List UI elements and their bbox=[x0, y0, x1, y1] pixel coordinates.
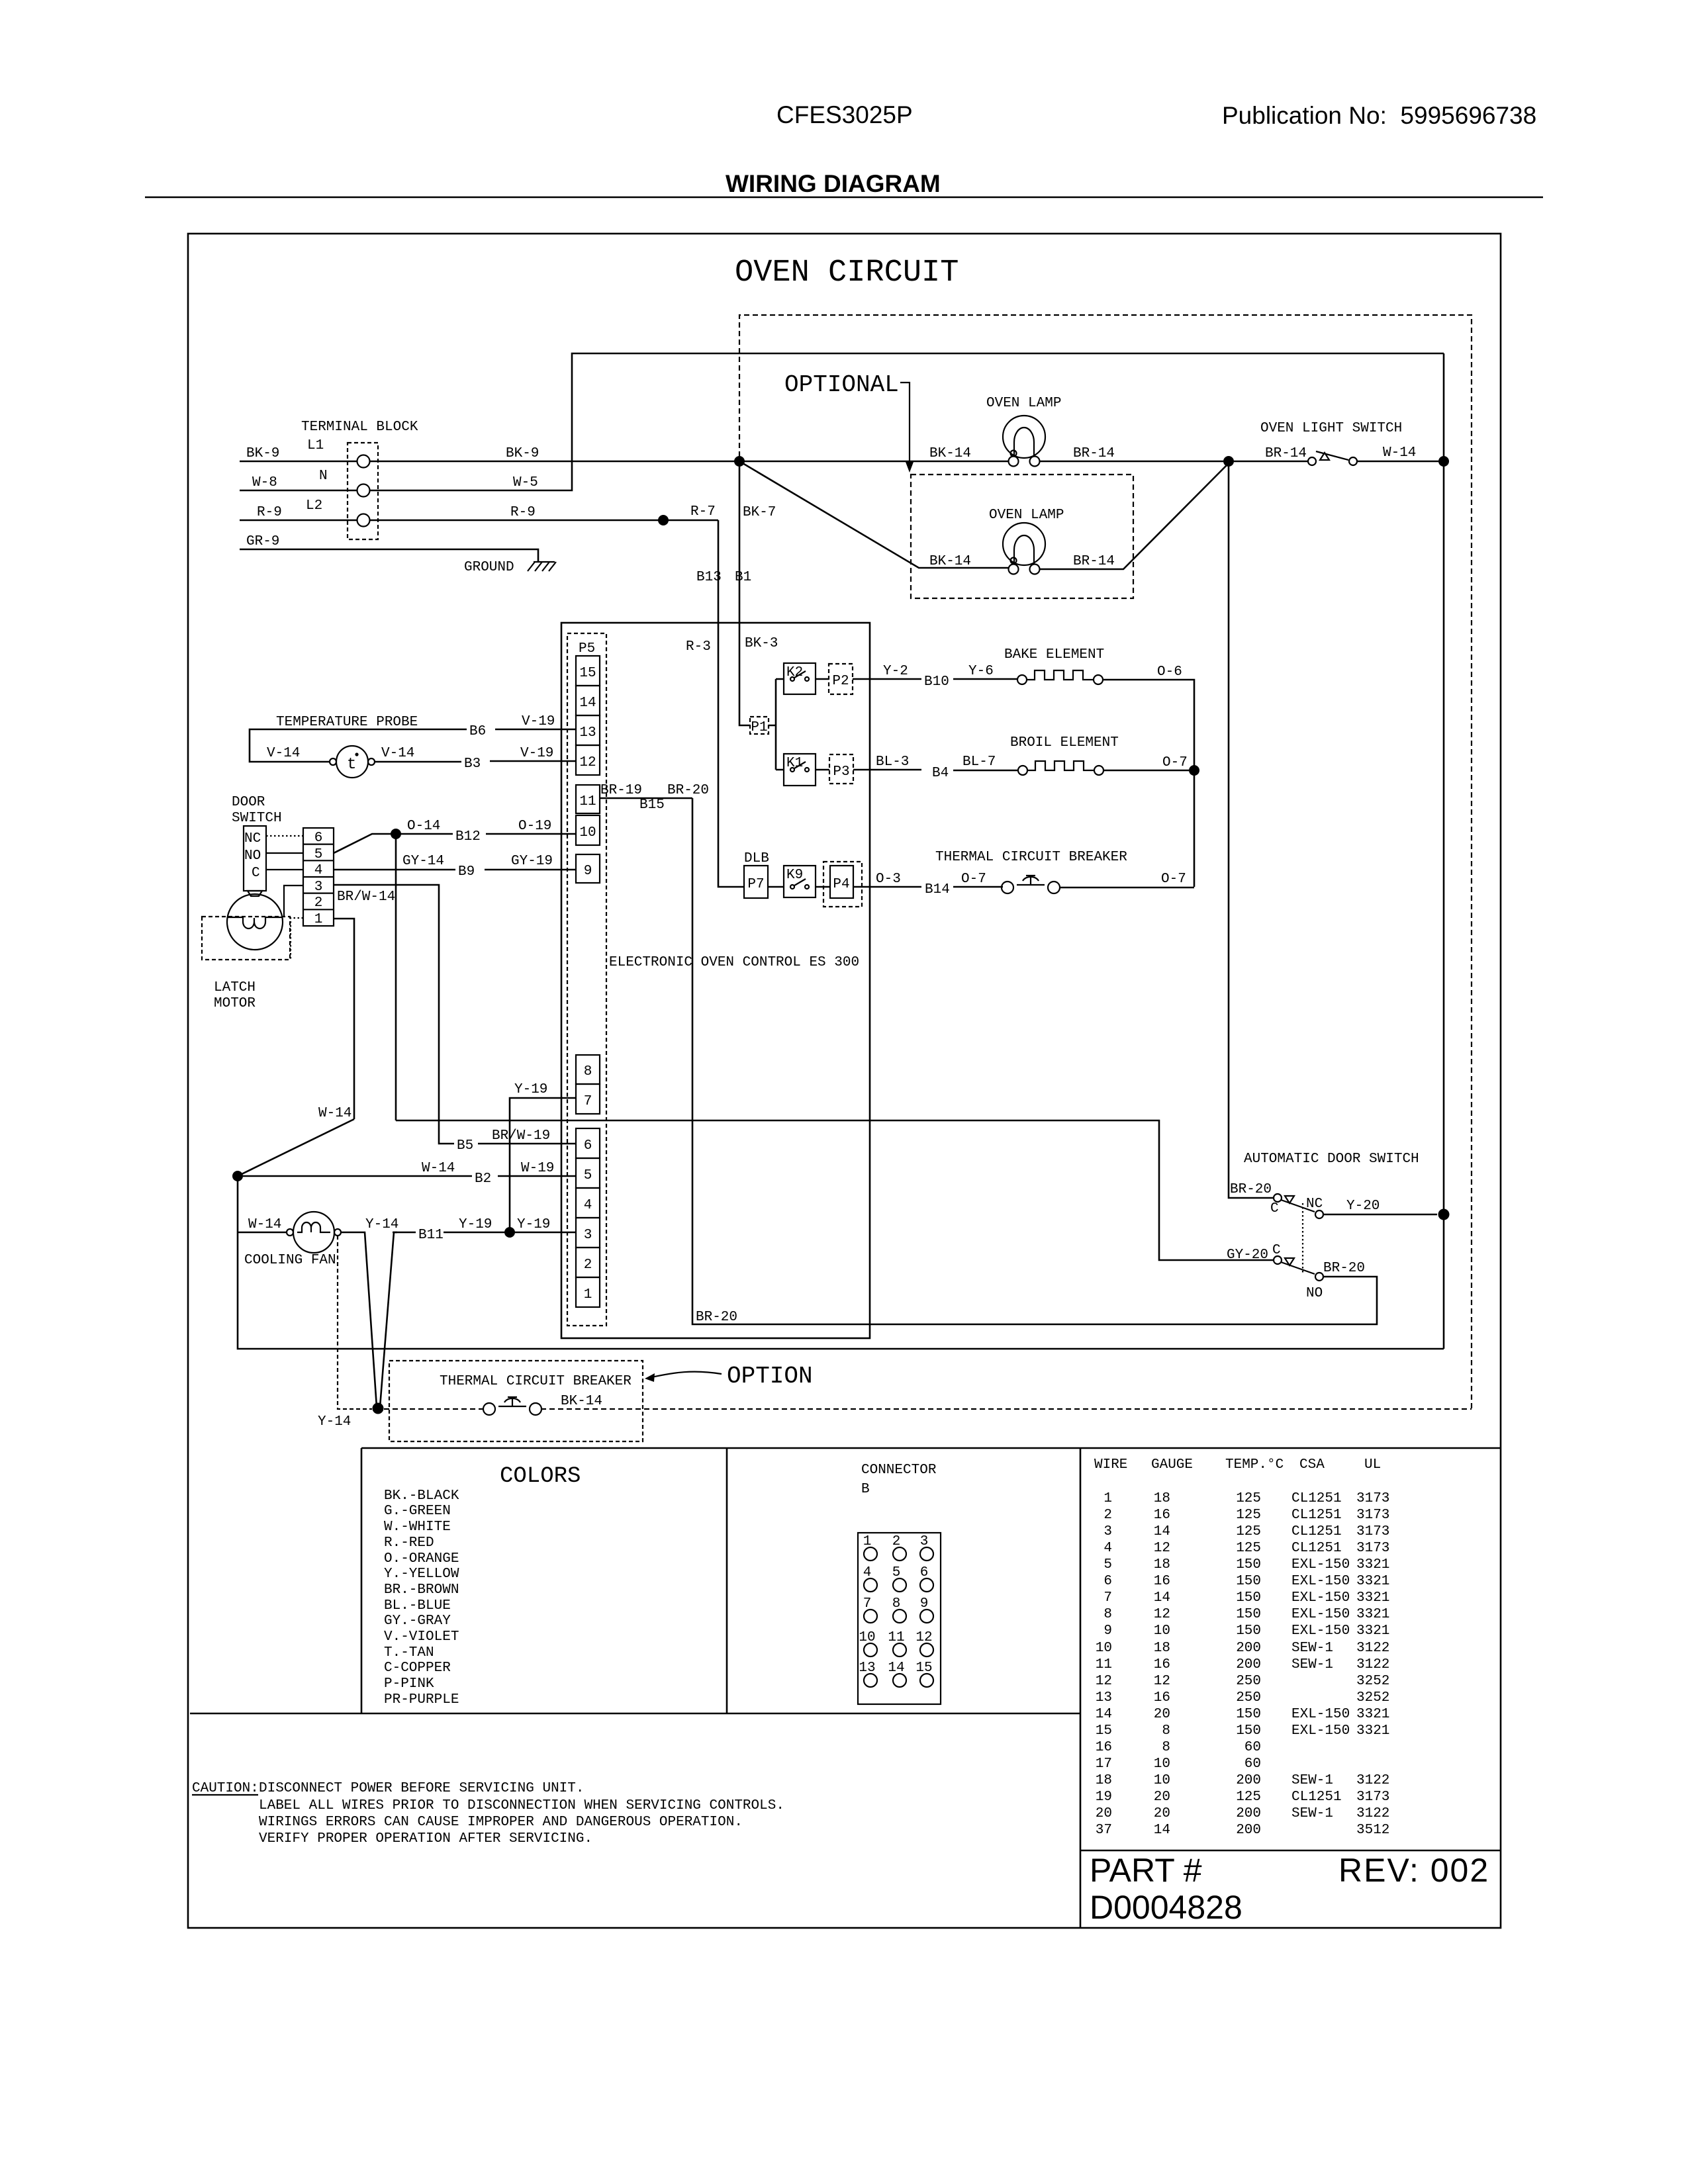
svg-text:150: 150 bbox=[1236, 1623, 1261, 1639]
svg-text:14: 14 bbox=[1154, 1590, 1170, 1606]
relay K9 blade bbox=[794, 879, 806, 886]
svg-text:Y-2: Y-2 bbox=[883, 664, 908, 679]
svg-text:GY-20: GY-20 bbox=[1227, 1248, 1268, 1263]
svg-text:MOTOR: MOTOR bbox=[214, 996, 256, 1011]
svg-text:B15: B15 bbox=[639, 797, 665, 813]
thermal circuit breaker dome bbox=[1023, 877, 1039, 881]
option breaker stem and cap bbox=[508, 1397, 517, 1406]
svg-text:200: 200 bbox=[1236, 1773, 1261, 1788]
svg-text:W-14: W-14 bbox=[1383, 445, 1416, 461]
svg-text:150: 150 bbox=[1236, 1574, 1261, 1589]
svg-text:5: 5 bbox=[584, 1168, 592, 1183]
wire P7 to K9 bbox=[768, 886, 784, 888]
wire cell 1 left down bbox=[291, 918, 303, 959]
terminal P4 bbox=[830, 866, 853, 898]
svg-text:10: 10 bbox=[579, 825, 596, 841]
svg-text:LATCH: LATCH bbox=[214, 980, 256, 995]
svg-text:5: 5 bbox=[314, 847, 323, 862]
svg-text:3321: 3321 bbox=[1356, 1557, 1389, 1572]
svg-text:W-5: W-5 bbox=[513, 475, 538, 490]
svg-text:DISCONNECT POWER BEFORE SERVIC: DISCONNECT POWER BEFORE SERVICING UNIT. bbox=[259, 1781, 584, 1796]
svg-text:12: 12 bbox=[1154, 1541, 1170, 1556]
relay K2 blade bbox=[794, 671, 806, 678]
svg-text:11: 11 bbox=[888, 1630, 904, 1645]
svg-text:150: 150 bbox=[1236, 1607, 1261, 1622]
svg-text:R.-RED: R.-RED bbox=[384, 1535, 434, 1551]
svg-text:15: 15 bbox=[915, 1661, 932, 1676]
svg-text:3321: 3321 bbox=[1356, 1590, 1389, 1606]
svg-text:O.-ORANGE: O.-ORANGE bbox=[384, 1551, 459, 1567]
svg-text:N: N bbox=[319, 469, 328, 484]
wire Y-2 B10 Y-6 to bake element bbox=[853, 678, 1017, 680]
pin 9 bbox=[576, 854, 600, 883]
svg-text:4: 4 bbox=[1103, 1541, 1112, 1556]
svg-text:10: 10 bbox=[1154, 1623, 1170, 1639]
svg-text:12: 12 bbox=[1154, 1674, 1170, 1689]
svg-text:13: 13 bbox=[859, 1661, 875, 1676]
wire W-14 B2 W-19 to pin 5 bbox=[243, 1175, 576, 1177]
relay K2 contact right bbox=[805, 677, 809, 681]
bake element right terminal bbox=[1094, 675, 1103, 684]
oven lamp 1 bulb bbox=[1003, 416, 1045, 458]
svg-text:37: 37 bbox=[1096, 1823, 1112, 1838]
svg-text:B9: B9 bbox=[458, 864, 475, 880]
svg-text:BL-7: BL-7 bbox=[962, 754, 996, 770]
svg-text:18: 18 bbox=[1154, 1491, 1170, 1506]
oven lamp 2 bulb bbox=[1003, 523, 1045, 565]
wire O-19 B12 to pin 10 bbox=[400, 833, 576, 835]
oven lamp 2 left terminal bbox=[1009, 565, 1019, 574]
svg-text:CSA: CSA bbox=[1299, 1457, 1325, 1473]
svg-text:12: 12 bbox=[1154, 1607, 1170, 1622]
wire fan dashed drop to option breaker bbox=[338, 1236, 372, 1409]
colors section left border bbox=[361, 1448, 363, 1713]
svg-text:1: 1 bbox=[584, 1287, 592, 1302]
oven lamp 1 left terminal bbox=[1009, 457, 1019, 467]
wire cell 5 diagonal to O node bbox=[334, 834, 395, 853]
svg-text:CL1251: CL1251 bbox=[1291, 1491, 1342, 1506]
svg-text:EXL-150: EXL-150 bbox=[1291, 1557, 1350, 1572]
wire gauge table left border bbox=[1080, 1448, 1082, 1928]
svg-text:3173: 3173 bbox=[1356, 1790, 1389, 1805]
wire R-9 from terminal block to corner bbox=[370, 520, 718, 522]
wire BK-9 supply left bbox=[240, 461, 357, 463]
svg-text:BK-9: BK-9 bbox=[506, 446, 539, 461]
svg-text:P3: P3 bbox=[833, 764, 849, 780]
svg-text:W.-WHITE: W.-WHITE bbox=[384, 1520, 451, 1535]
svg-text:BR.-BROWN: BR.-BROWN bbox=[384, 1582, 459, 1598]
svg-text:9: 9 bbox=[584, 864, 592, 879]
wire BR-14 node to switch bbox=[1234, 461, 1308, 463]
svg-text:WIRE: WIRE bbox=[1094, 1457, 1127, 1473]
svg-text:9: 9 bbox=[1103, 1623, 1112, 1639]
svg-text:TERMINAL BLOCK: TERMINAL BLOCK bbox=[301, 420, 418, 435]
cooling fan left terminal bbox=[287, 1229, 293, 1236]
ads lower common contact bbox=[1274, 1256, 1282, 1264]
wire O-14 vertical down bbox=[395, 834, 397, 1120]
wire GY-20 long run to automatic door switch bbox=[396, 1120, 1274, 1260]
svg-text:3: 3 bbox=[584, 1228, 592, 1243]
svg-text:DLB: DLB bbox=[744, 851, 769, 866]
connector B body bbox=[858, 1533, 941, 1704]
svg-text:3321: 3321 bbox=[1356, 1574, 1389, 1589]
temperature probe right terminal bbox=[368, 758, 375, 765]
node junction BR before light switch bbox=[1223, 456, 1234, 467]
svg-text:BR-20: BR-20 bbox=[1323, 1261, 1365, 1276]
svg-text:3321: 3321 bbox=[1356, 1707, 1389, 1722]
svg-text:14: 14 bbox=[579, 696, 596, 711]
svg-text:B2: B2 bbox=[475, 1171, 491, 1187]
ads lower NO contact bbox=[1315, 1273, 1323, 1281]
svg-text:W-14: W-14 bbox=[422, 1161, 455, 1176]
svg-text:15: 15 bbox=[1096, 1723, 1112, 1739]
pin 10 bbox=[576, 815, 600, 845]
svg-text:12: 12 bbox=[915, 1630, 932, 1645]
svg-text:Y-14: Y-14 bbox=[365, 1217, 399, 1232]
svg-text:K9: K9 bbox=[786, 868, 803, 883]
oven light switch right contact bbox=[1349, 457, 1357, 465]
option pointer arrow bbox=[651, 1372, 722, 1377]
svg-text:150: 150 bbox=[1236, 1557, 1261, 1572]
svg-text:O-7: O-7 bbox=[1162, 755, 1188, 770]
svg-text:P7: P7 bbox=[747, 877, 764, 892]
svg-text:THERMAL CIRCUIT BREAKER: THERMAL CIRCUIT BREAKER bbox=[935, 850, 1127, 865]
pin 11 bbox=[576, 785, 600, 813]
svg-text:THERMAL CIRCUIT BREAKER: THERMAL CIRCUIT BREAKER bbox=[440, 1374, 632, 1389]
svg-text:7: 7 bbox=[584, 1094, 592, 1109]
thermal circuit breaker bridge bbox=[1017, 884, 1045, 886]
svg-text:3321: 3321 bbox=[1356, 1623, 1389, 1639]
svg-text:WIRING DIAGRAM: WIRING DIAGRAM bbox=[726, 170, 941, 197]
option breaker right terminal bbox=[530, 1403, 541, 1415]
relay K1 contact left bbox=[790, 768, 794, 772]
terminal block L1 terminal bbox=[357, 455, 370, 468]
svg-text:ELECTRONIC OVEN CONTROL ES 300: ELECTRONIC OVEN CONTROL ES 300 bbox=[609, 955, 859, 970]
svg-text:DOOR: DOOR bbox=[232, 795, 265, 810]
svg-text:B5: B5 bbox=[457, 1138, 473, 1154]
ads upper actuator triangle bbox=[1285, 1196, 1294, 1203]
svg-text:3: 3 bbox=[1103, 1524, 1112, 1539]
terminal P2 bbox=[829, 664, 853, 694]
ads lower blade bbox=[1281, 1262, 1315, 1274]
svg-text:BR/W-19: BR/W-19 bbox=[492, 1128, 550, 1144]
wire NC to cell 6 dotted bbox=[266, 835, 303, 837]
svg-text:B12: B12 bbox=[455, 829, 481, 844]
svg-text:D0004828: D0004828 bbox=[1090, 1889, 1243, 1926]
svg-text:B: B bbox=[861, 1482, 870, 1497]
wire K9 to P4 bbox=[816, 886, 830, 888]
wire C to cell 4 bbox=[266, 869, 303, 870]
wire W-5 from terminal block up and across top bbox=[370, 353, 1444, 490]
svg-text:R-9: R-9 bbox=[257, 505, 282, 520]
bake element heating coil bbox=[1027, 670, 1094, 680]
terminal P4 dashed surround bbox=[823, 862, 862, 907]
svg-text:AUTOMATIC DOOR SWITCH: AUTOMATIC DOOR SWITCH bbox=[1244, 1152, 1419, 1167]
svg-text:1: 1 bbox=[314, 912, 323, 927]
svg-text:PART #: PART # bbox=[1090, 1852, 1202, 1889]
svg-text:COLORS: COLORS bbox=[500, 1464, 581, 1489]
connector B pins row 5 bbox=[864, 1674, 877, 1687]
svg-text:BK-3: BK-3 bbox=[745, 636, 778, 651]
wire W-8 supply left bbox=[240, 490, 357, 492]
svg-text:BR-20: BR-20 bbox=[667, 783, 709, 798]
svg-text:3252: 3252 bbox=[1356, 1674, 1389, 1689]
svg-text:20: 20 bbox=[1154, 1707, 1170, 1722]
svg-text:G.-GREEN: G.-GREEN bbox=[384, 1504, 451, 1519]
svg-text:EXL-150: EXL-150 bbox=[1291, 1574, 1350, 1589]
node junction BK at optional box corner bbox=[734, 456, 745, 467]
svg-text:125: 125 bbox=[1236, 1541, 1261, 1556]
svg-text:P2: P2 bbox=[832, 674, 849, 689]
wire B6 V-19 to pin 13 bbox=[250, 729, 576, 762]
svg-text:V.-VIOLET: V.-VIOLET bbox=[384, 1629, 459, 1645]
svg-text:B13: B13 bbox=[696, 570, 722, 585]
svg-text:14: 14 bbox=[1096, 1707, 1112, 1722]
pin 12 bbox=[576, 745, 600, 775]
svg-text:COOLING FAN: COOLING FAN bbox=[244, 1253, 336, 1268]
svg-text:8: 8 bbox=[584, 1064, 592, 1079]
svg-text:12: 12 bbox=[1096, 1674, 1112, 1689]
svg-text:OPTIONAL: OPTIONAL bbox=[784, 371, 899, 398]
wire BR-20 vertical and bottom run bbox=[692, 798, 1377, 1324]
svg-text:GY-19: GY-19 bbox=[511, 854, 553, 869]
wire V-14 B3 V-19 to pin 12 bbox=[375, 761, 576, 762]
option thermal breaker dashed box bbox=[389, 1361, 643, 1441]
svg-text:NC: NC bbox=[1306, 1197, 1323, 1212]
svg-text:B11: B11 bbox=[418, 1228, 444, 1243]
svg-text:BK-14: BK-14 bbox=[929, 554, 971, 569]
svg-text:BR-14: BR-14 bbox=[1265, 446, 1307, 461]
pin 6 bbox=[576, 1128, 600, 1158]
thermal circuit breaker stem and cap bbox=[1026, 876, 1035, 885]
wire BK-7 B1 vertical down to P1 bbox=[739, 467, 750, 725]
svg-text:200: 200 bbox=[1236, 1641, 1261, 1656]
latch motor body bbox=[227, 894, 283, 950]
svg-text:P5: P5 bbox=[579, 641, 595, 657]
svg-text:NO: NO bbox=[1306, 1286, 1323, 1301]
connector P5 dashed outline bbox=[567, 633, 606, 1326]
svg-text:2: 2 bbox=[1103, 1508, 1112, 1523]
svg-text:GR-9: GR-9 bbox=[246, 534, 279, 549]
option breaker left terminal bbox=[483, 1403, 495, 1415]
svg-text:EXL-150: EXL-150 bbox=[1291, 1607, 1350, 1622]
svg-text:16: 16 bbox=[1154, 1690, 1170, 1706]
svg-text:15: 15 bbox=[579, 666, 596, 681]
ads mechanical link dashed bbox=[1302, 1203, 1303, 1273]
broil element left terminal bbox=[1018, 766, 1027, 775]
svg-text:200: 200 bbox=[1236, 1823, 1261, 1838]
svg-text:200: 200 bbox=[1236, 1657, 1261, 1672]
svg-text:3122: 3122 bbox=[1356, 1657, 1389, 1672]
header underline bbox=[145, 197, 1543, 199]
svg-text:3122: 3122 bbox=[1356, 1773, 1389, 1788]
broil element right terminal bbox=[1094, 766, 1103, 775]
broil element heating coil bbox=[1027, 761, 1094, 770]
svg-text:O-7: O-7 bbox=[961, 872, 986, 887]
node junction W right rail bbox=[1438, 456, 1449, 467]
pin 1 bbox=[576, 1277, 600, 1307]
junction node Y-14 option bbox=[373, 1403, 384, 1414]
svg-text:PR-PURPLE: PR-PURPLE bbox=[384, 1692, 459, 1707]
svg-text:O-19: O-19 bbox=[518, 819, 551, 834]
ads upper common contact bbox=[1274, 1194, 1282, 1202]
svg-text:P1: P1 bbox=[751, 720, 767, 735]
svg-text:12: 12 bbox=[579, 755, 596, 770]
wire Y-19 B11 to pin 3 bbox=[393, 1232, 576, 1234]
relay K9 bbox=[784, 866, 816, 897]
pin 13 bbox=[576, 715, 600, 745]
wire BR/W-14 B5 BR/W-19 to pin 6 bbox=[334, 885, 576, 1144]
svg-text:NO: NO bbox=[244, 848, 261, 864]
wire W-14 switch to node bbox=[1357, 461, 1438, 463]
svg-text:BAKE ELEMENT: BAKE ELEMENT bbox=[1004, 647, 1104, 662]
optional label pointer line bbox=[900, 383, 910, 467]
svg-text:BR-20: BR-20 bbox=[1230, 1182, 1272, 1197]
wire O-7 broil output bbox=[1103, 770, 1189, 772]
temperature probe degree dot bbox=[355, 752, 358, 756]
svg-text:Y-20: Y-20 bbox=[1346, 1199, 1380, 1214]
junction node Y wire bbox=[504, 1227, 515, 1238]
door switch plunger bbox=[248, 891, 262, 896]
oven lamp 2 filament contact bbox=[1011, 558, 1017, 564]
svg-text:R-3: R-3 bbox=[686, 639, 711, 655]
svg-text:20: 20 bbox=[1154, 1790, 1170, 1805]
svg-text:Y-6: Y-6 bbox=[968, 664, 994, 679]
oven light switch blade bbox=[1316, 451, 1348, 460]
svg-text:60: 60 bbox=[1244, 1756, 1261, 1772]
wire O-3 B14 O-7 to breaker bbox=[853, 886, 1003, 888]
svg-text:OVEN LAMP: OVEN LAMP bbox=[989, 508, 1064, 523]
svg-text:Publication No: 5995696738: Publication No: 5995696738 bbox=[1222, 102, 1536, 129]
relay K1 bbox=[784, 754, 816, 786]
svg-text:W-19: W-19 bbox=[521, 1161, 554, 1176]
svg-text:P4: P4 bbox=[833, 877, 849, 892]
svg-text:UL: UL bbox=[1364, 1457, 1381, 1473]
svg-text:14: 14 bbox=[1154, 1823, 1170, 1838]
svg-text:O-7: O-7 bbox=[1161, 872, 1186, 887]
wire W-14 diagonal to node bbox=[239, 1119, 354, 1175]
wire Y-20 to W rail bbox=[1323, 1214, 1437, 1216]
junction node O-14 bbox=[391, 829, 401, 839]
svg-text:NC: NC bbox=[244, 831, 261, 846]
svg-text:BR-14: BR-14 bbox=[1073, 554, 1115, 569]
svg-text:B4: B4 bbox=[932, 766, 949, 781]
optional dashed enclosure bbox=[739, 315, 1472, 1408]
svg-text:18: 18 bbox=[1154, 1557, 1170, 1572]
svg-text:8: 8 bbox=[1162, 1740, 1170, 1755]
connector B pins row 2 bbox=[864, 1578, 877, 1592]
svg-text:10: 10 bbox=[859, 1630, 875, 1645]
pin 7 bbox=[576, 1084, 600, 1114]
svg-text:OVEN LIGHT SWITCH: OVEN LIGHT SWITCH bbox=[1260, 421, 1402, 436]
svg-text:3122: 3122 bbox=[1356, 1806, 1389, 1821]
svg-text:Y-19: Y-19 bbox=[459, 1217, 492, 1232]
svg-text:GROUND: GROUND bbox=[464, 560, 514, 575]
wire R-9 supply left bbox=[240, 520, 357, 522]
outer border of oven circuit sheet bbox=[188, 234, 1501, 1928]
svg-text:7: 7 bbox=[1103, 1590, 1112, 1606]
relay K1 contact right bbox=[805, 768, 809, 772]
svg-text:125: 125 bbox=[1236, 1524, 1261, 1539]
pin 8 bbox=[576, 1055, 600, 1084]
svg-text:125: 125 bbox=[1236, 1790, 1261, 1805]
svg-text:B1: B1 bbox=[735, 570, 751, 585]
relay P1 bbox=[750, 717, 769, 734]
optional lamp 2 dashed box bbox=[911, 475, 1133, 598]
option breaker dome bbox=[504, 1398, 520, 1402]
svg-text:200: 200 bbox=[1236, 1806, 1261, 1821]
oven light switch left contact bbox=[1308, 457, 1316, 465]
pin 14 bbox=[576, 686, 600, 715]
svg-text:4: 4 bbox=[584, 1198, 592, 1213]
svg-text:3173: 3173 bbox=[1356, 1541, 1389, 1556]
terminal P3 bbox=[829, 754, 853, 784]
svg-text:18: 18 bbox=[1096, 1773, 1112, 1788]
svg-text:150: 150 bbox=[1236, 1723, 1261, 1739]
svg-text:B6: B6 bbox=[469, 724, 486, 739]
wire K1 to P3 bbox=[816, 769, 829, 771]
wire cell 3 left to latch motor bbox=[284, 886, 303, 917]
colors section top border bbox=[361, 1447, 1501, 1449]
temperature probe body bbox=[336, 746, 368, 778]
pin 3 bbox=[576, 1218, 600, 1248]
colors connector divider bbox=[726, 1448, 728, 1713]
wire GR-9 ground wire bbox=[240, 549, 538, 562]
svg-text:14: 14 bbox=[888, 1661, 904, 1676]
relay K2 bbox=[784, 663, 816, 694]
oven lamp 2 right terminal bbox=[1030, 565, 1040, 574]
svg-text:O-14: O-14 bbox=[407, 819, 440, 834]
thermal circuit breaker right terminal bbox=[1048, 882, 1060, 893]
svg-text:B3: B3 bbox=[464, 756, 481, 772]
svg-text:P-PINK: P-PINK bbox=[384, 1676, 434, 1692]
svg-text:CL1251: CL1251 bbox=[1291, 1541, 1342, 1556]
wire R-7 B13 vertical down to P7 bbox=[718, 520, 744, 887]
svg-text:8: 8 bbox=[1103, 1607, 1112, 1622]
svg-text:18: 18 bbox=[1154, 1641, 1170, 1656]
svg-text:BR-20: BR-20 bbox=[696, 1310, 737, 1325]
svg-text:10: 10 bbox=[1154, 1756, 1170, 1772]
svg-text:L1: L1 bbox=[307, 438, 324, 453]
svg-text:EXL-150: EXL-150 bbox=[1291, 1590, 1350, 1606]
wire K2 to P2 bbox=[816, 678, 829, 680]
terminal block N terminal bbox=[357, 484, 370, 497]
svg-text:Y-19: Y-19 bbox=[514, 1082, 547, 1097]
terminal P7 bbox=[744, 866, 768, 898]
cooling fan body bbox=[293, 1212, 334, 1253]
pin 4 bbox=[576, 1188, 600, 1218]
svg-text:8: 8 bbox=[1162, 1723, 1170, 1739]
svg-text:3252: 3252 bbox=[1356, 1690, 1389, 1706]
svg-text:OPTION: OPTION bbox=[727, 1363, 813, 1390]
svg-text:3173: 3173 bbox=[1356, 1491, 1389, 1506]
svg-text:4: 4 bbox=[314, 863, 323, 878]
wire Y-19 to pin 7 bbox=[510, 1098, 576, 1232]
svg-text:OVEN LAMP: OVEN LAMP bbox=[986, 396, 1061, 411]
svg-text:150: 150 bbox=[1236, 1707, 1261, 1722]
svg-text:17: 17 bbox=[1096, 1756, 1112, 1772]
svg-text:W-14: W-14 bbox=[318, 1106, 352, 1121]
wire BK-14 dashed option run bbox=[384, 1408, 1472, 1410]
svg-text:2: 2 bbox=[314, 895, 323, 911]
svg-text:16: 16 bbox=[1154, 1657, 1170, 1672]
svg-text:BL-3: BL-3 bbox=[876, 754, 909, 770]
svg-text:BROIL ELEMENT: BROIL ELEMENT bbox=[1010, 735, 1119, 751]
connector B pins row 4 bbox=[864, 1643, 877, 1657]
bake element left terminal bbox=[1017, 675, 1027, 684]
wire NO to cell 5 bbox=[266, 852, 303, 854]
svg-text:GY-14: GY-14 bbox=[402, 854, 444, 869]
